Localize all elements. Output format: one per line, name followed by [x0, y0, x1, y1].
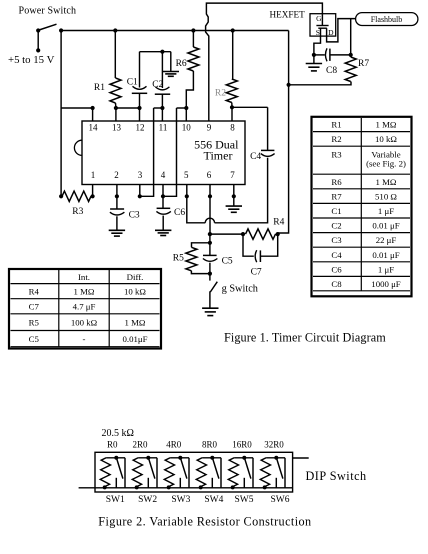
DIP left lead [79, 487, 95, 489]
switch SW1 contact leg [115, 478, 117, 488]
node +V terminal [36, 48, 40, 52]
DIP cell 6 top wire [266, 457, 285, 459]
label C6 [174, 208, 185, 218]
svg-text:20.5 kΩ: 20.5 kΩ [102, 428, 134, 439]
svg-text:C3: C3 [129, 210, 140, 220]
op-amp U1 556 body [82, 121, 245, 185]
wire pin6 down [209, 196, 211, 234]
wire R1 bottom [115, 103, 117, 108]
wire to R4 left [210, 233, 243, 235]
hexfet source leg [320, 28, 322, 36]
wire C7 left [243, 234, 254, 256]
svg-text:C5: C5 [222, 257, 233, 267]
node R7 top junction [349, 53, 353, 57]
svg-text:C3: C3 [331, 235, 342, 245]
trigger switch [210, 282, 217, 292]
wire R2 top [232, 31, 234, 80]
svg-text:11: 11 [159, 123, 168, 133]
wire C3 to ground [116, 216, 118, 230]
svg-text:C7: C7 [29, 302, 40, 312]
node DIP cell 6 bottom [263, 485, 267, 489]
svg-text:4.7 μF: 4.7 μF [73, 302, 96, 312]
label 16R0 [232, 440, 252, 450]
wire C5 bottom [209, 263, 211, 274]
wire C5 top [209, 243, 211, 256]
label Power Switch [19, 6, 77, 17]
svg-text:SW6: SW6 [271, 495, 290, 505]
label SW2 [138, 495, 157, 505]
svg-text:R2: R2 [331, 134, 341, 144]
resistor 32R0 [260, 458, 270, 487]
wire C8 node up to flashbulb line [350, 19, 352, 55]
label 8R0 [202, 440, 218, 450]
switch SW4 lever [213, 459, 219, 479]
switch SW5 lever [245, 459, 251, 479]
svg-text:10 kΩ: 10 kΩ [124, 287, 146, 297]
DIP cell 5 top wire [234, 457, 253, 459]
svg-text:4R0: 4R0 [166, 440, 182, 450]
node pin11 junction [160, 106, 164, 110]
DIP cell 4 top wire [202, 457, 221, 459]
svg-text:R7: R7 [358, 59, 369, 69]
pin numbers top row [89, 123, 236, 133]
svg-text:16R0: 16R0 [232, 440, 252, 450]
label SW1 [106, 495, 125, 505]
capacitor C8 [325, 48, 329, 61]
svg-text:SW2: SW2 [138, 495, 157, 505]
svg-text:R3: R3 [331, 150, 342, 160]
label S [316, 28, 320, 37]
wire pin8 to C4 [232, 106, 268, 108]
wire R2 bottom [231, 103, 233, 108]
label R2 [215, 89, 226, 99]
node rail-R1 junction [113, 28, 117, 32]
wire C8 left [314, 54, 325, 56]
wire C2 top [161, 52, 163, 88]
label HEXFET [270, 9, 306, 19]
DIP cell 1 top wire [106, 457, 125, 459]
svg-text:R1: R1 [94, 83, 105, 93]
svg-text:1: 1 [91, 170, 96, 180]
switch SW2 lever [149, 459, 155, 479]
switch SW1 lever [117, 459, 123, 479]
node DIP cell 1 bottom [103, 485, 107, 489]
resistor R1 [110, 78, 121, 103]
ground at pin 7 [226, 206, 242, 212]
hexfet gate plate [316, 25, 328, 27]
wire C7 right [260, 234, 277, 256]
DIP cell 4 right leg [220, 458, 222, 488]
pin numbers bottom row [91, 170, 236, 180]
node DIP cell 4 top [210, 456, 214, 460]
node C2 top junction [160, 50, 164, 54]
capacitor C5 [203, 255, 218, 261]
svg-text:R4: R4 [29, 287, 40, 297]
resistor R2 [226, 79, 237, 103]
wire pin10 to crossing [177, 107, 187, 109]
DIP cell 2 top wire [138, 457, 157, 459]
svg-text:2: 2 [114, 170, 119, 180]
svg-text:G: G [316, 14, 322, 23]
wire pin9 to gate [206, 3, 323, 108]
svg-text:1 MΩ: 1 MΩ [74, 287, 95, 297]
DIP right lead [293, 457, 309, 459]
resistor 4R0 [164, 458, 174, 487]
node rail-R6 junction [191, 28, 195, 32]
svg-text:SW3: SW3 [171, 495, 190, 505]
svg-text:(see Fig. 2): (see Fig. 2) [366, 159, 406, 169]
node DIP cell 6 top [274, 456, 278, 460]
wire R3 to pin1 [91, 195, 93, 197]
label R4 [273, 218, 284, 228]
svg-text:C6: C6 [174, 208, 185, 218]
wire pin13-pin12 [116, 107, 140, 109]
svg-text:1 μF: 1 μF [378, 264, 394, 274]
svg-text:3: 3 [138, 170, 143, 180]
svg-text:10: 10 [182, 123, 192, 133]
svg-text:1000 μF: 1000 μF [371, 279, 401, 289]
svg-text:D: D [328, 28, 334, 37]
svg-text:S: S [316, 28, 320, 37]
wire crossing to pin4 [163, 108, 177, 196]
transistor Q1 HEXFET box [310, 14, 336, 36]
wire pin11 to crossing [154, 107, 163, 109]
svg-text:8R0: 8R0 [202, 440, 218, 450]
capacitor C7 [255, 250, 260, 262]
svg-text:Figure 2. Variable Resistor C: Figure 2. Variable Resistor Construction [98, 515, 311, 529]
wire switch to ground [209, 291, 211, 307]
DIP cell 3 right leg [188, 458, 190, 488]
label C4 [250, 152, 261, 162]
power switch S1 [36, 24, 63, 32]
wire R1 top [114, 31, 116, 79]
wire to pin 14 [61, 107, 93, 109]
flashbulb lamp [356, 13, 418, 26]
svg-text:R3: R3 [72, 207, 83, 217]
resistor 16R0 [228, 458, 238, 487]
resistor R3 [62, 191, 91, 201]
hexfet channel plate [318, 27, 327, 29]
IC notch [74, 140, 82, 155]
node DIP cell 1 top [114, 456, 118, 460]
svg-text:0.01 μF: 0.01 μF [372, 250, 399, 260]
svg-text:1 μF: 1 μF [378, 206, 394, 216]
label C2 [152, 80, 163, 90]
wire R7 bottom branch [289, 82, 351, 85]
node pin6-R4 junction [208, 232, 212, 236]
label D [328, 28, 334, 37]
node R3 left junction [59, 194, 63, 198]
label Timer [204, 149, 233, 163]
ground below trigger switch [202, 308, 218, 315]
label R6 [176, 59, 187, 69]
svg-text:-: - [83, 334, 86, 344]
label SW5 [235, 495, 254, 505]
switch SW5 contact leg [243, 478, 245, 488]
table right: component value table borders [312, 117, 412, 296]
label C7 [251, 268, 262, 278]
DIP cell 5 right leg [252, 458, 254, 488]
wire source to ground node [314, 36, 321, 55]
label C3 [129, 210, 140, 220]
svg-text:C4: C4 [331, 250, 342, 260]
svg-text:Flashbulb: Flashbulb [371, 15, 403, 24]
capacitor C3 [110, 209, 125, 215]
wire R6 top [192, 31, 194, 48]
wire R7 top [350, 55, 352, 57]
resistor R6 [188, 47, 199, 71]
svg-text:5: 5 [184, 170, 189, 180]
svg-text:Figure 1. Timer Circuit Diagra: Figure 1. Timer Circuit Diagram [224, 331, 386, 345]
node DIP cell 5 bottom [231, 485, 235, 489]
wire C1 bottom [139, 93, 141, 108]
svg-text:C8: C8 [331, 279, 342, 289]
wire C8 right [330, 54, 351, 56]
svg-text:7: 7 [230, 170, 235, 180]
svg-text:Power Switch: Power Switch [19, 6, 77, 17]
node R7 branch junction [287, 83, 291, 87]
wire supply stub [37, 31, 39, 51]
wire R6 bottom jog [186, 71, 193, 108]
wire R5 top [192, 243, 210, 248]
node pin10 junction [184, 106, 188, 110]
DIP cell 3 top wire [170, 457, 189, 459]
svg-text:C2: C2 [331, 221, 341, 231]
capacitor C6 [156, 208, 171, 214]
wire pin2 to C3 [116, 196, 118, 209]
node R4 right junction [276, 232, 280, 236]
label R7 [358, 59, 369, 69]
ground below C6 [155, 230, 171, 235]
DIP cell 6 right leg [284, 458, 286, 488]
node pin14 junction [91, 106, 95, 110]
svg-text:1 MΩ: 1 MΩ [376, 177, 397, 187]
node DIP cell 5 top [242, 456, 246, 460]
svg-text:9: 9 [207, 123, 212, 133]
node source-C8 junction [312, 53, 316, 57]
wire C4 top [267, 107, 269, 150]
svg-text:R0: R0 [107, 440, 118, 450]
node DIP cell 3 bottom [167, 485, 171, 489]
svg-text:C1: C1 [127, 77, 138, 87]
caption Figure 2 [98, 515, 311, 529]
switch SW2 contact leg [147, 478, 149, 488]
caption Figure 1 [224, 331, 386, 345]
wire crossing to pin3 [140, 108, 154, 196]
label SW6 [271, 495, 290, 505]
wire left rail [60, 31, 62, 197]
switch SW4 contact leg [211, 478, 213, 488]
ground at HEXFET source [306, 64, 322, 71]
svg-text:22 μF: 22 μF [376, 235, 397, 245]
DIP bottom bus [95, 487, 293, 489]
label 556 Dual [194, 138, 239, 152]
svg-text:C5: C5 [29, 334, 40, 344]
svg-text:C8: C8 [326, 66, 337, 76]
wire pin4 to C6 [162, 196, 164, 208]
resistor 2R0 [132, 458, 142, 487]
hexfet gate stem [321, 14, 323, 25]
wire cap ground bus [140, 51, 171, 53]
wire drain to flashbulb [327, 19, 356, 42]
switch SW6 contact leg [275, 478, 277, 488]
table left: parameter table borders [9, 269, 161, 349]
switch SW6 lever [277, 459, 283, 479]
label 20.5 kOhm [102, 428, 134, 439]
svg-text:R5: R5 [29, 318, 40, 328]
label R3 [72, 207, 83, 217]
switch SW3 lever [181, 459, 187, 479]
svg-text:C6: C6 [331, 264, 342, 274]
node C5 bottom junction [208, 272, 212, 276]
node DIP cell 3 top [178, 456, 182, 460]
svg-text:13: 13 [112, 123, 122, 133]
svg-text:12: 12 [136, 123, 145, 133]
label C8 [326, 66, 337, 76]
wire rail right corner [288, 31, 290, 85]
wire R5 bottom [191, 271, 210, 274]
node DIP cell 4 bottom [199, 485, 203, 489]
svg-text:R1: R1 [331, 120, 341, 130]
svg-text:SW5: SW5 [235, 495, 254, 505]
wire C1 top [139, 52, 141, 88]
capacitor C1 [132, 86, 147, 93]
pin stubs top [93, 107, 232, 121]
DIP cell 1 right leg [124, 458, 126, 488]
svg-text:R6: R6 [176, 59, 187, 69]
node rail-R2 junction [231, 28, 235, 32]
wire C4 bottom to pin5 hop [187, 158, 268, 223]
DIP switch body [95, 452, 293, 492]
resistor R7 [345, 57, 356, 82]
resistor R5 [186, 247, 197, 270]
ground near R6 [163, 72, 179, 77]
svg-text:Diff.: Diff. [127, 272, 144, 282]
label g Switch [222, 284, 259, 295]
DIP cell 2 right leg [156, 458, 158, 488]
capacitor C4 [261, 150, 275, 156]
label R0 [107, 440, 118, 450]
svg-text:g Switch: g Switch [222, 284, 259, 295]
svg-text:0.01 μF: 0.01 μF [372, 221, 399, 231]
node pin8 junction [230, 105, 234, 109]
svg-text:R5: R5 [173, 254, 184, 264]
svg-text:Int.: Int. [78, 272, 90, 282]
table left: cell text [29, 272, 148, 344]
wire ground drop [170, 52, 172, 71]
label C5 [222, 257, 233, 267]
resistor R4 [246, 229, 276, 239]
svg-text:R6: R6 [331, 177, 342, 187]
wire pin6 node down [209, 234, 211, 243]
label +5 to 15 V [8, 54, 55, 66]
label Flashbulb [371, 15, 403, 24]
svg-text:R7: R7 [331, 191, 342, 201]
label 4R0 [166, 440, 182, 450]
label DIP Switch [306, 469, 367, 483]
wire R4 right stub [276, 233, 278, 235]
wire to trigger switch [209, 274, 211, 281]
resistor 8R0 [196, 458, 206, 487]
svg-text:32R0: 32R0 [264, 440, 284, 450]
capacitor C2 [155, 87, 170, 94]
svg-text:C1: C1 [331, 206, 341, 216]
label 32R0 [264, 440, 284, 450]
svg-text:1 MΩ: 1 MΩ [376, 120, 397, 130]
svg-text:100 kΩ: 100 kΩ [71, 318, 98, 328]
label R5 [173, 254, 184, 264]
node pin13 junction [114, 106, 118, 110]
hexfet drain leg [326, 28, 328, 36]
label SW4 [204, 495, 223, 505]
ground below C3 [109, 230, 125, 236]
svg-text:4: 4 [161, 170, 166, 180]
wire top rail Vcc [61, 30, 289, 32]
svg-text:SW4: SW4 [204, 495, 223, 505]
svg-text:0.01μF: 0.01μF [122, 334, 147, 344]
svg-text:6: 6 [207, 170, 212, 180]
svg-text:10 kΩ: 10 kΩ [375, 134, 397, 144]
label SW3 [171, 495, 190, 505]
svg-text:R4: R4 [273, 218, 284, 228]
svg-text:Timer: Timer [204, 149, 233, 163]
svg-text:14: 14 [89, 123, 99, 133]
node R5 top junction [208, 241, 212, 245]
label 2R0 [133, 440, 149, 450]
svg-text:C7: C7 [251, 268, 262, 278]
wire C2 bottom [161, 94, 163, 108]
switch SW3 contact leg [179, 478, 181, 488]
pin stubs bottom [93, 185, 234, 197]
wire C6 to ground [162, 216, 164, 230]
pin bottom junction dots [91, 194, 236, 198]
label R1 [94, 83, 105, 93]
node DIP cell 2 bottom [135, 485, 139, 489]
svg-text:8: 8 [230, 123, 235, 133]
wire ground stem [313, 55, 315, 63]
node DIP cell 2 top [146, 456, 150, 460]
node pin12 junction [137, 106, 141, 110]
svg-text:2R0: 2R0 [133, 440, 149, 450]
table right: cell text [331, 120, 406, 290]
svg-text:510 Ω: 510 Ω [375, 191, 397, 201]
svg-text:1 MΩ: 1 MΩ [125, 318, 146, 328]
svg-text:SW1: SW1 [106, 495, 125, 505]
svg-text:HEXFET: HEXFET [270, 9, 306, 19]
svg-text:C4: C4 [250, 152, 261, 162]
label C1 [127, 77, 138, 87]
node R4 left junction [241, 232, 245, 236]
label G [316, 14, 322, 23]
wire pin7 to ground [233, 196, 235, 205]
resistor R0 [100, 458, 110, 487]
svg-text:DIP Switch: DIP Switch [306, 469, 367, 483]
wire down to R4 right [278, 85, 289, 233]
svg-text:R2: R2 [215, 89, 226, 99]
svg-text:+5 to 15 V: +5 to 15 V [8, 54, 55, 66]
